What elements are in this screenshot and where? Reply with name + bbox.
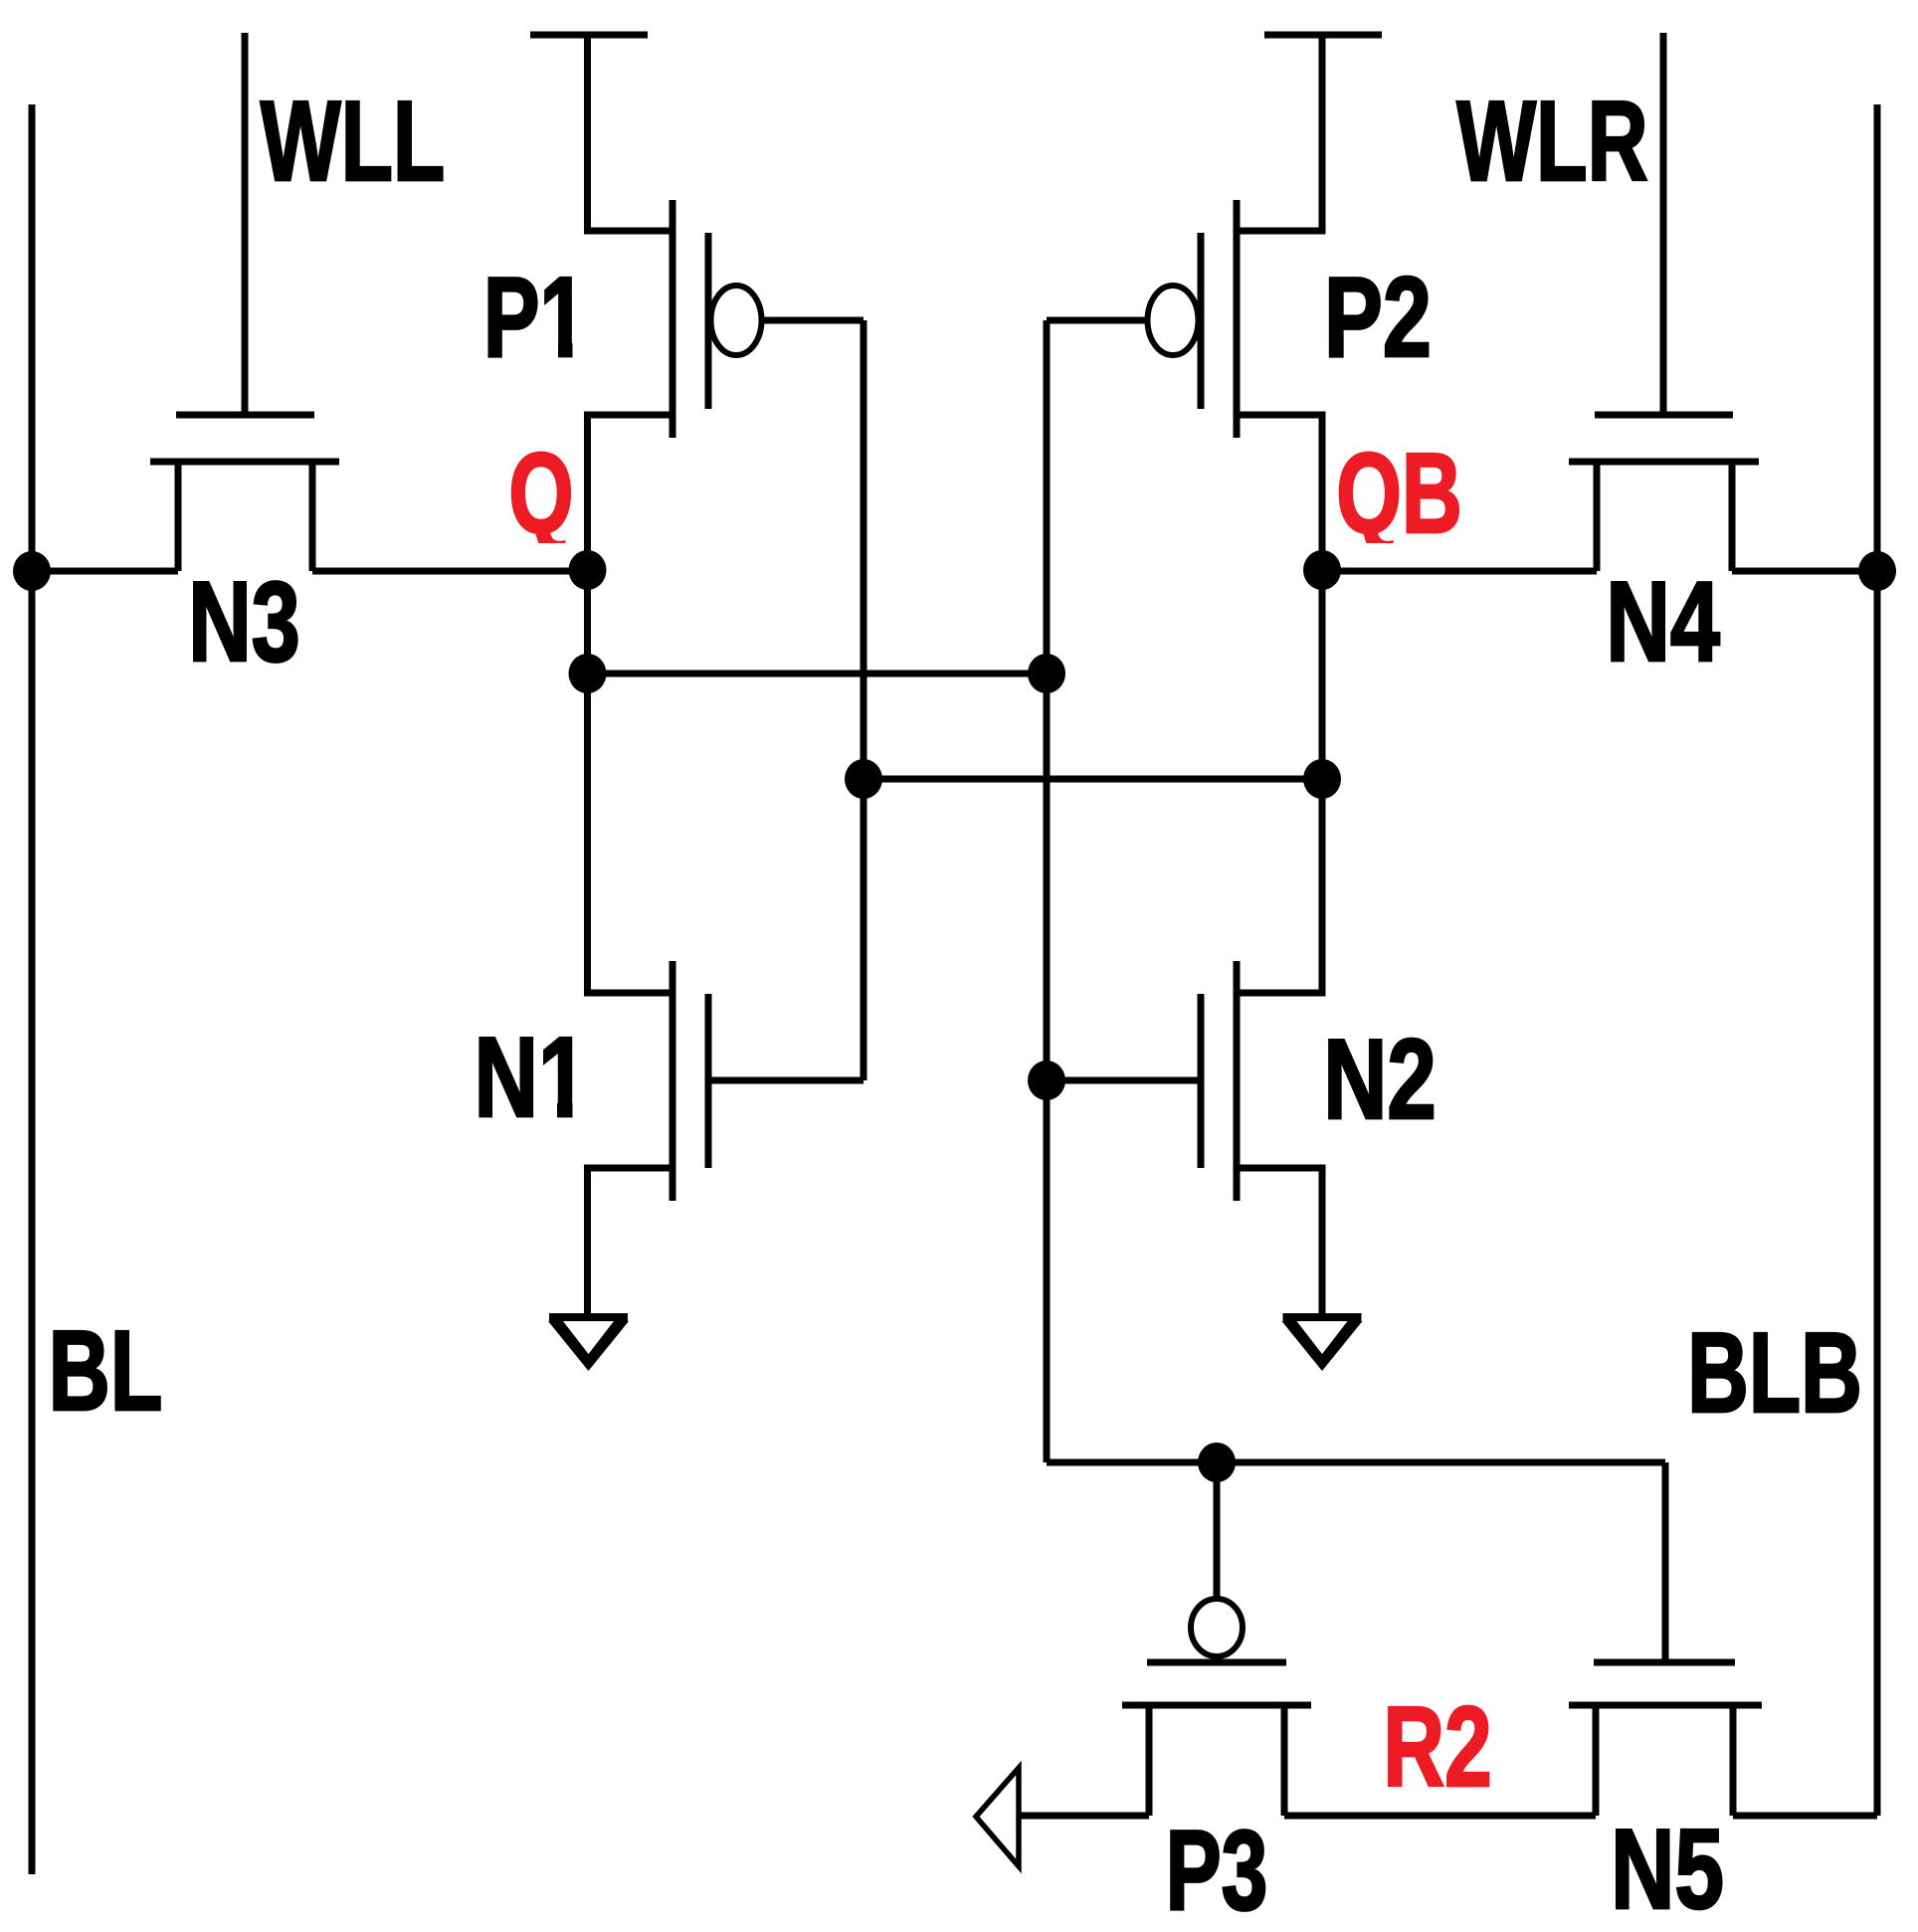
svg-text:N1: N1	[474, 1014, 587, 1141]
svg-text:P1: P1	[483, 255, 587, 381]
svg-text:N3: N3	[188, 558, 299, 685]
svg-text:Q: Q	[508, 430, 573, 557]
svg-text:BL: BL	[49, 1308, 163, 1434]
svg-text:P3: P3	[1166, 1808, 1268, 1932]
svg-text:R2: R2	[1383, 1684, 1491, 1811]
svg-text:BLB: BLB	[1687, 1310, 1862, 1437]
svg-text:WLL: WLL	[261, 79, 445, 205]
svg-text:P2: P2	[1324, 254, 1432, 381]
svg-text:QB: QB	[1336, 431, 1462, 557]
svg-text:N2: N2	[1323, 1015, 1437, 1142]
svg-text:WLR: WLR	[1456, 79, 1647, 205]
svg-text:N5: N5	[1611, 1805, 1724, 1932]
svg-text:N4: N4	[1606, 558, 1720, 685]
